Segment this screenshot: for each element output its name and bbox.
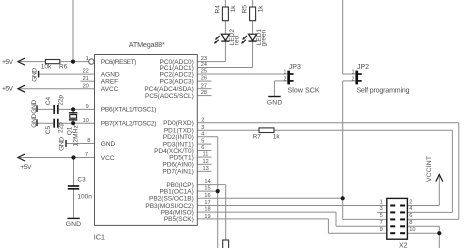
- svg-text:17: 17: [204, 200, 210, 206]
- svg-text:19: 19: [204, 214, 210, 220]
- wire PB3 pin17 to X2 pin1: [197, 205, 386, 207]
- svg-text:13: 13: [203, 166, 209, 172]
- svg-text:PD2(INT0): PD2(INT0): [163, 134, 194, 141]
- wire JP3 pin2 to GND drop: [274, 80, 287, 82]
- wire pin13 stub: [197, 170, 211, 172]
- wire VCC pin7 to +5V: [18, 157, 95, 159]
- svg-text:11: 11: [203, 152, 209, 158]
- svg-text:R6: R6: [59, 64, 68, 71]
- wire R6 to pin 1: [60, 61, 89, 63]
- svg-text:GND: GND: [58, 137, 65, 151]
- svg-text:red: red: [233, 35, 240, 45]
- wire pin28 stub: [197, 95, 211, 97]
- svg-text:27: 27: [201, 83, 207, 89]
- svg-text:PB1(OC1A): PB1(OC1A): [159, 188, 193, 195]
- svg-text:Slow SCK: Slow SCK: [288, 88, 320, 95]
- svg-text:X2: X2: [399, 242, 408, 248]
- svg-text:10: 10: [409, 227, 415, 233]
- svg-text:5: 5: [201, 139, 204, 145]
- wire R7 to X2 pin4: [274, 129, 452, 131]
- svg-text:3: 3: [201, 125, 204, 131]
- svg-text:+5V: +5V: [2, 59, 13, 66]
- wire R5 top to edge: [252, 0, 254, 7]
- svg-text:14: 14: [204, 179, 210, 185]
- svg-text:12MHz: 12MHz: [73, 125, 80, 147]
- svg-text:6: 6: [409, 213, 412, 219]
- svg-text:R4: R4: [214, 5, 221, 14]
- svg-text:JP3: JP3: [289, 64, 301, 71]
- svg-text:6: 6: [201, 145, 204, 151]
- svg-text:+5V: +5V: [20, 164, 32, 171]
- svg-text:2: 2: [284, 76, 287, 82]
- svg-text:GND: GND: [267, 100, 283, 107]
- wire pin6 stub: [197, 150, 211, 152]
- IC1 pin numbers left: [83, 56, 91, 158]
- IC1 left pin labels: [101, 59, 157, 162]
- svg-text:GND: GND: [66, 221, 82, 228]
- svg-text:7: 7: [380, 220, 383, 226]
- wire RXD pin2 to X2 pin6: [197, 122, 459, 124]
- wire PB1 pin15 to INT0 vertical: [197, 190, 217, 192]
- svg-text:R7: R7: [253, 134, 262, 141]
- svg-text:PD5(T1): PD5(T1): [169, 154, 194, 161]
- svg-text:22: 22: [83, 69, 89, 75]
- svg-text:GND: GND: [31, 68, 38, 82]
- wire pin26 stub: [197, 80, 211, 82]
- svg-text:PB6(XTAL1/TOSC1): PB6(XTAL1/TOSC1): [101, 107, 157, 114]
- wire R4 to LED2: [224, 21, 226, 34]
- svg-text:2: 2: [409, 199, 412, 205]
- node PB1/INT0 junction: [216, 189, 220, 193]
- svg-text:PB7(XTAL2/TOSC2): PB7(XTAL2/TOSC2): [101, 121, 157, 128]
- svg-text:28: 28: [201, 90, 207, 96]
- svg-text:PC2(ADC2): PC2(ADC2): [159, 71, 193, 78]
- svg-text:JP2: JP2: [357, 64, 369, 71]
- svg-text:1: 1: [284, 70, 287, 76]
- wire R5 to LED1: [252, 21, 254, 34]
- svg-text:IC1: IC1: [94, 232, 105, 241]
- svg-text:PD7(AIN1): PD7(AIN1): [162, 169, 193, 176]
- node RESET junction: [71, 60, 75, 64]
- wire PB4 pin18 staircase to X2 pin7: [197, 211, 336, 213]
- wire RESET net top vertical: [72, 0, 74, 62]
- wire pin25 to JP3 pin1: [197, 73, 287, 75]
- wire crystal vertical: [72, 109, 74, 123]
- svg-text:16: 16: [204, 193, 210, 199]
- wire JP2 net top vertical: [342, 0, 344, 74]
- svg-text:1: 1: [380, 199, 383, 205]
- node VCC junction: [71, 155, 75, 159]
- svg-text:21: 21: [83, 76, 89, 82]
- wire AVCC pin20 to +5V: [18, 88, 95, 90]
- svg-text:AREF: AREF: [101, 79, 118, 86]
- wire X2 pin2 to VCCINT: [408, 205, 440, 207]
- svg-text:AGND: AGND: [101, 71, 120, 78]
- node X2 pin8/pin10 junction: [437, 231, 441, 235]
- wire JP2 pin2 to PB2 net down to X2 pin5: [343, 80, 356, 82]
- svg-text:100n: 100n: [77, 193, 92, 200]
- svg-text:7: 7: [85, 152, 88, 158]
- IC1 right pin labels: [144, 59, 193, 223]
- wire AGND pin22 to GND: [39, 73, 95, 75]
- svg-text:VCC: VCC: [101, 155, 115, 162]
- wire pin5 stub: [197, 143, 211, 145]
- wire +5V to R6 left: [18, 61, 45, 63]
- wire PB2 pin16 to JP2 vertical: [197, 197, 342, 199]
- svg-text:C3: C3: [77, 176, 86, 183]
- svg-text:GND: GND: [31, 114, 38, 128]
- wire GND pin8: [66, 143, 95, 145]
- wire INT0 pin4 down to bottom edge: [197, 136, 217, 138]
- wire XTAL1 pin9 row: [37, 108, 53, 110]
- node PB2/JP2 junction: [341, 196, 345, 200]
- svg-text:1k: 1k: [257, 5, 264, 13]
- svg-text:1k: 1k: [230, 5, 237, 13]
- svg-text:5: 5: [380, 213, 383, 219]
- node XTAL1 junction: [71, 107, 75, 111]
- svg-text:PC5(ADC5/SCL): PC5(ADC5/SCL): [145, 93, 194, 100]
- svg-text:GND: GND: [101, 141, 116, 148]
- svg-text:+5V: +5V: [2, 86, 13, 93]
- svg-text:C5: C5: [45, 126, 52, 135]
- svg-text:10: 10: [83, 118, 89, 124]
- svg-text:4: 4: [201, 131, 204, 137]
- svg-text:2: 2: [201, 117, 204, 123]
- wire X2 pin8 down to pin10 net: [408, 225, 440, 227]
- svg-text:ATMega88*: ATMega88*: [129, 40, 165, 49]
- IC1 pin numbers right: [201, 56, 211, 220]
- svg-text:green: green: [261, 29, 268, 46]
- wire C3 vertical bottom: [73, 189, 75, 218]
- svg-text:22p: 22p: [58, 122, 65, 133]
- svg-text:PC6(/RESET): PC6(/RESET): [101, 59, 137, 66]
- svg-text:12: 12: [203, 159, 209, 165]
- wire R4 top to edge: [224, 0, 226, 7]
- svg-text:1: 1: [86, 56, 89, 62]
- svg-text:VCCINT: VCCINT: [426, 156, 433, 182]
- wire TXD pin3 to R7: [197, 129, 259, 131]
- svg-text:3: 3: [380, 206, 383, 212]
- svg-text:1: 1: [352, 70, 355, 76]
- svg-text:R5: R5: [242, 5, 249, 14]
- wire AREF pin21 stub: [81, 80, 95, 82]
- svg-text:15: 15: [204, 186, 210, 192]
- svg-text:AVCC: AVCC: [101, 86, 119, 93]
- svg-text:PC3(ADC3): PC3(ADC3): [159, 78, 193, 85]
- wire pin12 stub: [197, 163, 211, 165]
- wire X2 pin3 stub: [377, 211, 387, 213]
- wire pin11 stub: [197, 156, 211, 158]
- wire XTAL2 pin10 row: [37, 122, 53, 124]
- svg-text:PB2(SS/OC1B): PB2(SS/OC1B): [149, 196, 194, 203]
- svg-text:PD0(RXD): PD0(RXD): [163, 120, 194, 127]
- svg-text:24: 24: [201, 62, 207, 68]
- svg-text:C4: C4: [45, 97, 52, 106]
- svg-text:18: 18: [204, 207, 210, 213]
- svg-text:8: 8: [87, 138, 90, 144]
- svg-text:9: 9: [86, 104, 89, 110]
- svg-text:PB5(SCK): PB5(SCK): [164, 216, 194, 223]
- wire X2 pin10 to junction, down to bottom edge: [408, 232, 440, 234]
- wire pin27 stub: [197, 88, 211, 90]
- wire C3 vertical top: [73, 158, 75, 186]
- svg-text:26: 26: [201, 76, 207, 82]
- svg-text:22p: 22p: [58, 95, 65, 106]
- svg-text:2: 2: [352, 76, 355, 82]
- svg-text:25: 25: [201, 69, 207, 75]
- node XTAL2 junction: [71, 121, 75, 125]
- wire pin24 to LED1 column: [197, 67, 252, 69]
- svg-text:8: 8: [409, 220, 412, 226]
- svg-text:PD6(AIN0): PD6(AIN0): [162, 162, 193, 169]
- svg-text:Self programming: Self programming: [357, 88, 410, 95]
- svg-text:GND: GND: [31, 100, 38, 114]
- wire pin23 to LED2 column: [197, 61, 225, 63]
- svg-text:20: 20: [83, 83, 89, 89]
- svg-text:4: 4: [409, 206, 412, 212]
- svg-text:9: 9: [380, 227, 383, 233]
- svg-text:1k: 1k: [273, 134, 281, 141]
- wire PB5 pin19 staircase to X2 pin9: [197, 218, 328, 220]
- wire PB0 pin14 down to bottom resistor: [197, 184, 225, 186]
- svg-text:10k: 10k: [41, 64, 52, 71]
